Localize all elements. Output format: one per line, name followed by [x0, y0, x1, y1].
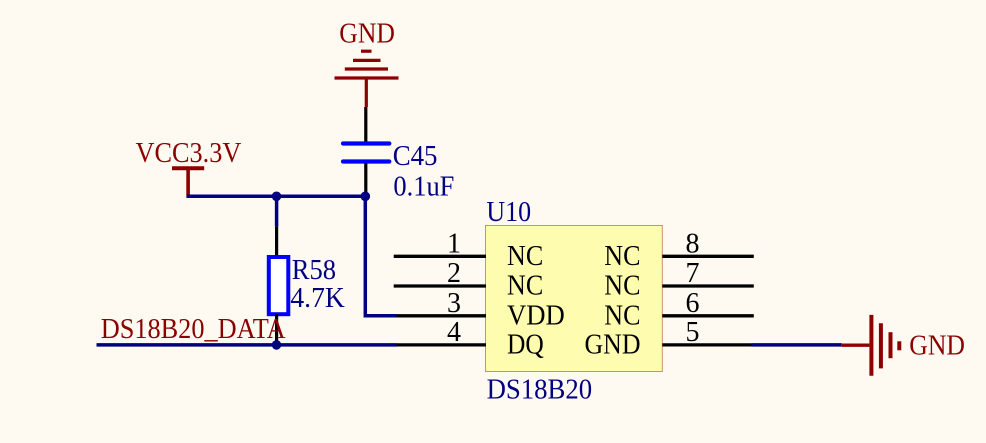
svg-text:5: 5 — [686, 317, 700, 348]
wire pin5 to GND — [752, 343, 842, 347]
wire (R58 top pin) — [275, 227, 278, 258]
pin 3 wire — [397, 314, 487, 317]
svg-text:C45: C45 — [393, 141, 438, 172]
capacitor C45 — [343, 144, 389, 162]
wire (VDD drop) — [365, 196, 396, 315]
wire (R58 bottom pin) — [275, 314, 278, 345]
svg-text:DS18B20_DATA: DS18B20_DATA — [101, 314, 287, 345]
svg-text:NC: NC — [604, 300, 640, 331]
pin 4 wire — [397, 343, 487, 346]
wire (cap bottom pin) — [364, 164, 367, 197]
svg-text:NC: NC — [507, 271, 543, 302]
svg-text:R58: R58 — [292, 255, 336, 286]
wire DS18B20_DATA rail — [97, 343, 397, 347]
svg-text:8: 8 — [686, 228, 700, 259]
svg-text:2: 2 — [447, 258, 461, 289]
wire (junction to R58) — [275, 196, 279, 226]
svg-text:VDD: VDD — [507, 300, 565, 331]
wire VCC rail — [186, 195, 365, 199]
power symbol GND (right) — [842, 315, 900, 376]
svg-text:NC: NC — [604, 241, 640, 272]
pin 6 wire — [662, 314, 754, 317]
pin 1 wire — [394, 255, 486, 258]
pin 5 wire — [662, 343, 751, 346]
power symbol GND (top) — [335, 51, 399, 107]
svg-text:4: 4 — [447, 317, 461, 348]
svg-text:3: 3 — [447, 288, 461, 319]
svg-text:GND: GND — [909, 330, 965, 361]
svg-text:NC: NC — [604, 271, 640, 302]
wire (cap top pin) — [364, 107, 367, 142]
junction (data rail / R58) — [272, 340, 282, 350]
svg-text:NC: NC — [507, 241, 543, 272]
svg-text:DS18B20: DS18B20 — [487, 375, 592, 406]
junction (rail / R58) — [272, 192, 282, 202]
svg-text:1: 1 — [447, 228, 461, 259]
IC U10 body — [486, 226, 663, 372]
resistor R58 — [269, 257, 289, 314]
svg-text:6: 6 — [686, 288, 700, 319]
power symbol VCC3.3V — [172, 168, 204, 195]
pin 2 wire — [394, 284, 486, 287]
svg-text:U10: U10 — [486, 197, 531, 228]
svg-text:GND: GND — [339, 19, 395, 50]
pin 8 wire — [662, 255, 754, 258]
pin 7 wire — [662, 284, 754, 287]
junction (rail / C45 / VDD wire) — [361, 192, 371, 202]
svg-text:4.7K: 4.7K — [290, 283, 344, 314]
svg-text:VCC3.3V: VCC3.3V — [136, 138, 242, 169]
svg-text:0.1uF: 0.1uF — [393, 172, 454, 203]
svg-text:7: 7 — [686, 258, 700, 289]
svg-text:GND: GND — [585, 330, 641, 361]
svg-text:DQ: DQ — [507, 330, 544, 361]
